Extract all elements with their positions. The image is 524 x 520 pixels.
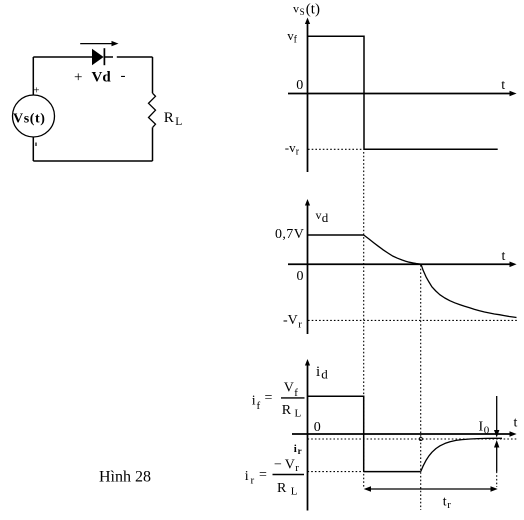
- svg-text:0: 0: [314, 420, 321, 435]
- svg-text:d: d: [322, 210, 329, 225]
- graph1 axis label vS(t): [293, 2, 320, 18]
- graph2 x-axis: [288, 262, 517, 268]
- svg-text:r: r: [295, 462, 299, 474]
- dotted vertical at reverse recovery point: [420, 265, 422, 510]
- svg-text:t: t: [501, 78, 505, 93]
- svg-text:r: r: [251, 475, 255, 487]
- svg-text:d: d: [321, 367, 328, 382]
- diode D cathode bar: [103, 48, 105, 65]
- svg-text:-V: -V: [283, 313, 298, 328]
- svg-text:=: =: [265, 391, 273, 406]
- graph2 dotted -Vr level: [308, 319, 517, 321]
- svg-text:I: I: [479, 420, 484, 435]
- svg-text:i: i: [245, 469, 249, 484]
- resistor RL label: [164, 110, 183, 128]
- wire left vertical: [32, 57, 34, 95]
- wire right top: [152, 57, 154, 93]
- label ir = -Vr/RL fraction: [245, 458, 304, 498]
- graph1 label vf: [287, 28, 297, 46]
- label + Vd -: [74, 68, 126, 86]
- graph3 small label ir: [294, 443, 302, 456]
- voltage source Vs(t) circle: [13, 95, 55, 137]
- svg-text:R: R: [164, 110, 174, 126]
- graph3 if plateau: [308, 396, 364, 471]
- label if = Vf/RL fraction: [252, 381, 305, 420]
- graph2 0.7V plateau: [308, 234, 364, 236]
- graph1 dotted -vr level: [308, 148, 364, 150]
- wire top (source to diode to resistor): [33, 56, 152, 58]
- svg-text:0,7V: 0,7V: [275, 227, 304, 242]
- svg-text:f: f: [294, 35, 298, 46]
- graph2 decay curve to zero: [364, 235, 421, 264]
- svg-text:0: 0: [297, 269, 304, 284]
- graph1 y-axis: [305, 18, 310, 173]
- dotted vertical at t=0 transition: [363, 152, 365, 488]
- svg-text:r: r: [447, 499, 451, 511]
- svg-text:L: L: [291, 486, 298, 498]
- svg-text:i: i: [316, 364, 320, 380]
- svg-text:R: R: [277, 481, 287, 496]
- svg-text:t: t: [502, 249, 506, 264]
- diode D anode triangle: [92, 49, 104, 65]
- dotted drop to tr arrow: [496, 472, 498, 488]
- svg-text:f: f: [257, 400, 261, 412]
- svg-text:−: −: [274, 458, 282, 473]
- svg-text:r: r: [298, 319, 302, 331]
- graph2 label -Vr: [283, 313, 302, 331]
- wire bottom: [33, 160, 152, 162]
- graph2 y-axis: [305, 199, 310, 334]
- svg-text:V: V: [285, 458, 295, 473]
- graph1 square wave vf segment: [308, 36, 498, 149]
- svg-text:0: 0: [484, 425, 490, 437]
- svg-text:L: L: [175, 116, 182, 128]
- svg-text:L: L: [295, 408, 302, 420]
- graph3 label I0: [479, 420, 490, 437]
- svg-text:-: -: [121, 68, 126, 84]
- wire source bottom: [32, 137, 34, 161]
- source - terminal tick: [35, 143, 37, 147]
- svg-text:v: v: [293, 2, 299, 16]
- svg-text:i: i: [294, 443, 297, 455]
- graph1 x-axis: [288, 91, 517, 97]
- diode D current arrow: [80, 41, 118, 46]
- svg-text:=: =: [259, 468, 267, 483]
- svg-text:Hình 28: Hình 28: [99, 469, 151, 486]
- svg-text:t: t: [443, 495, 447, 510]
- wire right bottom: [152, 127, 154, 161]
- graph3 x-axis: [292, 431, 517, 437]
- svg-text:Vs(t): Vs(t): [13, 112, 46, 127]
- svg-text:+: +: [74, 70, 82, 86]
- label tr: [443, 495, 452, 512]
- svg-text:S: S: [300, 7, 305, 17]
- svg-text:0: 0: [296, 78, 303, 93]
- graph2 axis label vd: [316, 208, 329, 225]
- svg-text:i: i: [252, 394, 256, 409]
- tr double arrow: [364, 486, 498, 492]
- resistor RL zigzag: [149, 93, 156, 127]
- svg-text:(t): (t): [306, 2, 320, 18]
- I0 up arrow: [494, 440, 499, 472]
- graph3 ir plateau: [364, 471, 421, 473]
- graph3 y-axis: [305, 359, 310, 511]
- svg-text:R: R: [282, 403, 292, 418]
- svg-text:-v: -v: [285, 140, 296, 155]
- graph3 dotted I0 level: [308, 438, 518, 440]
- graph3 recovery curve: [421, 438, 502, 471]
- svg-text:V: V: [284, 381, 294, 396]
- svg-text:r: r: [296, 147, 300, 158]
- svg-text:v: v: [316, 208, 322, 222]
- node marker at recovery intersection: [419, 437, 422, 440]
- graph1 label -vr: [285, 140, 300, 158]
- svg-text:r: r: [298, 446, 302, 456]
- svg-text:Vd: Vd: [92, 70, 112, 86]
- I0 down arrow: [494, 396, 499, 438]
- svg-text:t: t: [514, 416, 518, 431]
- graph3 axis label id: [316, 364, 328, 382]
- svg-text:f: f: [294, 387, 298, 399]
- graph2 reverse decay curve to -Vr: [421, 264, 517, 317]
- graph3 dotted ir level left: [308, 471, 364, 473]
- svg-text:+: +: [33, 85, 39, 97]
